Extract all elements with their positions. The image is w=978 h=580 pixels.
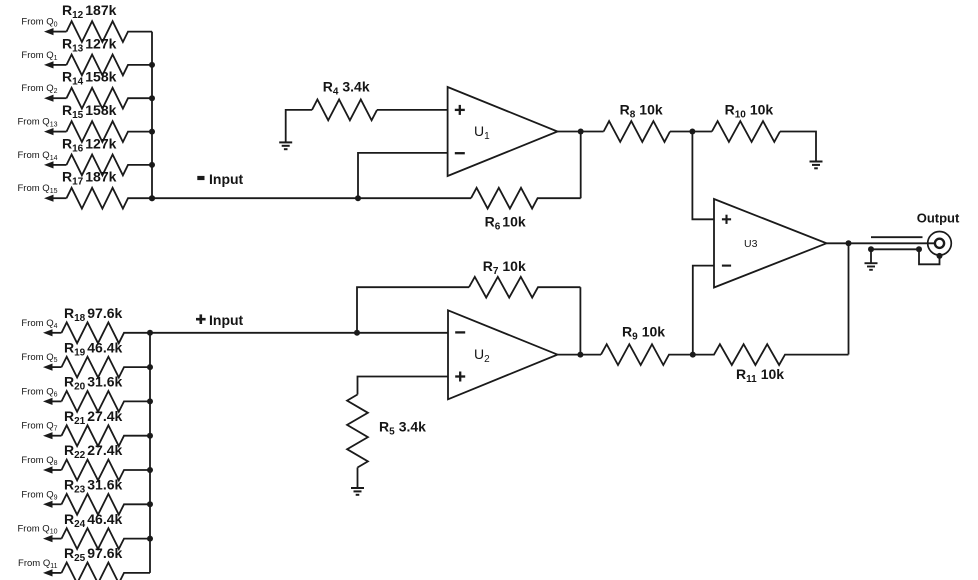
pin + (U3 non-inverting) bbox=[722, 215, 731, 224]
wire to R7 feedback bbox=[357, 287, 469, 333]
junction bbox=[147, 501, 153, 507]
wire U1 output to R6 bbox=[580, 132, 582, 199]
junction bbox=[937, 253, 943, 259]
pin - (U1 inverting) bbox=[455, 152, 465, 154]
label - input (minus dash) bbox=[197, 176, 204, 180]
junction bbox=[147, 536, 153, 542]
wire/arrow from Q5 bbox=[43, 364, 62, 371]
wire/arrow from Q9 bbox=[43, 501, 62, 508]
ground (R10) bbox=[810, 162, 823, 169]
resistor R19 bbox=[62, 357, 151, 378]
junction bbox=[147, 433, 153, 439]
ground (R5) bbox=[351, 488, 364, 495]
junction bbox=[147, 330, 153, 336]
svg-text:From Q1: From Q1 bbox=[21, 50, 57, 62]
wire to U1 inverting input bbox=[358, 153, 448, 198]
junction bbox=[846, 240, 852, 246]
pin - (U3 inverting) bbox=[722, 265, 731, 267]
wire bus (non-inverting summing node) bbox=[149, 333, 151, 573]
svg-text:From Q0: From Q0 bbox=[21, 17, 57, 29]
junction bbox=[577, 352, 583, 358]
resistor R17 bbox=[67, 188, 153, 209]
pin + (U2 non-inverting) bbox=[455, 372, 465, 382]
resistor R25 bbox=[62, 563, 151, 580]
junction bbox=[690, 352, 696, 358]
wire output to R11 feedback bbox=[848, 243, 850, 354]
svg-text:From Q8: From Q8 bbox=[21, 455, 57, 467]
wire R4 to U1 non-inverting input bbox=[377, 109, 448, 111]
wire R8 to node bbox=[670, 131, 692, 133]
junction bbox=[149, 62, 155, 68]
junction bbox=[147, 364, 153, 370]
wire/arrow from Q15 bbox=[44, 195, 67, 202]
wire ground to R4 bbox=[286, 110, 312, 142]
wire/arrow from Q13 bbox=[44, 128, 67, 135]
wire U2 non-inverting input bbox=[358, 377, 449, 395]
wire bus (inverting summing node) bbox=[151, 32, 153, 199]
junction bbox=[689, 129, 695, 135]
resistor R9 bbox=[601, 344, 693, 365]
wire/arrow from Q8 bbox=[43, 466, 62, 473]
output connector jack (inner) bbox=[935, 239, 944, 248]
resistor R13 bbox=[67, 55, 153, 76]
pin - (U2 inverting) bbox=[455, 331, 465, 333]
resistor R23 bbox=[62, 494, 151, 515]
wire/arrow from Q7 bbox=[43, 432, 62, 439]
resistor R5 bbox=[347, 395, 368, 468]
svg-text:From Q2: From Q2 bbox=[21, 83, 57, 95]
resistor R7 bbox=[469, 277, 580, 298]
wire U2 output bbox=[558, 354, 602, 356]
svg-text:From Q6: From Q6 bbox=[21, 386, 57, 398]
svg-text:From Q5: From Q5 bbox=[21, 352, 57, 364]
wire shield bottom bbox=[871, 248, 919, 250]
junction bbox=[149, 195, 155, 201]
op-amp U3 bbox=[714, 199, 827, 288]
resistor R22 bbox=[62, 460, 151, 481]
wire/arrow from Q2 bbox=[44, 95, 67, 102]
wire/arrow from Q4 bbox=[43, 329, 62, 336]
junction bbox=[147, 467, 153, 473]
wire/arrow from Q14 bbox=[44, 161, 67, 168]
wire/arrow from Q11 bbox=[43, 569, 62, 576]
wire/arrow from Q0 bbox=[44, 28, 67, 35]
svg-text:Input: Input bbox=[209, 312, 244, 328]
resistor R15 bbox=[67, 121, 153, 142]
wire U1 output bbox=[558, 131, 604, 133]
wire node to U3 inverting input bbox=[693, 266, 714, 355]
wire R7 to U2 output bbox=[579, 287, 581, 354]
wire - input net bbox=[152, 197, 471, 199]
wire R5 to ground bbox=[357, 468, 359, 488]
svg-text:Output: Output bbox=[917, 211, 960, 226]
wire/arrow from Q1 bbox=[44, 61, 67, 68]
svg-text:U3: U3 bbox=[744, 238, 758, 250]
junction bbox=[355, 195, 361, 201]
resistor R18 bbox=[62, 322, 151, 343]
pin + (U1 non-inverting) bbox=[455, 105, 465, 115]
ground (R4) bbox=[279, 142, 292, 149]
junction bbox=[147, 398, 153, 404]
resistor R6 bbox=[471, 188, 581, 209]
output connector jack (outer) bbox=[928, 232, 952, 256]
wire node to U3 non-inverting input bbox=[692, 132, 714, 220]
wire shield top bbox=[871, 236, 923, 238]
resistor R8 bbox=[604, 121, 670, 142]
wire + input net bbox=[150, 332, 448, 334]
op-amp U1 bbox=[448, 87, 558, 176]
resistor R14 bbox=[67, 88, 153, 109]
resistor R4 bbox=[312, 100, 377, 121]
resistor R24 bbox=[62, 528, 151, 549]
svg-text:From Q9: From Q9 bbox=[21, 489, 57, 501]
svg-text:From Q4: From Q4 bbox=[21, 318, 57, 330]
label + input (plus sign) bbox=[196, 314, 206, 324]
wire/arrow from Q10 bbox=[43, 535, 62, 542]
wire/arrow from Q6 bbox=[43, 398, 62, 405]
junction bbox=[354, 330, 360, 336]
resistor R12 bbox=[67, 21, 153, 42]
junction bbox=[578, 129, 584, 135]
resistor R20 bbox=[62, 391, 151, 412]
wire R10 to ground bbox=[780, 132, 816, 161]
junction bbox=[868, 246, 874, 252]
junction bbox=[149, 162, 155, 168]
wire shield to ground bbox=[870, 249, 872, 262]
junction bbox=[149, 95, 155, 101]
junction bbox=[916, 246, 922, 252]
junction bbox=[149, 129, 155, 135]
wire U3 output bbox=[827, 242, 935, 244]
svg-text:Input: Input bbox=[209, 171, 244, 187]
junction bbox=[149, 195, 155, 201]
resistor R21 bbox=[62, 425, 151, 446]
resistor R11 bbox=[693, 344, 849, 365]
wire shield to jack sleeve bbox=[919, 249, 940, 264]
ground (output shield) bbox=[865, 263, 878, 270]
resistor R16 bbox=[67, 155, 153, 176]
op-amp U2 bbox=[448, 310, 558, 399]
svg-text:From Q7: From Q7 bbox=[21, 421, 57, 433]
resistor R10 bbox=[692, 121, 780, 142]
